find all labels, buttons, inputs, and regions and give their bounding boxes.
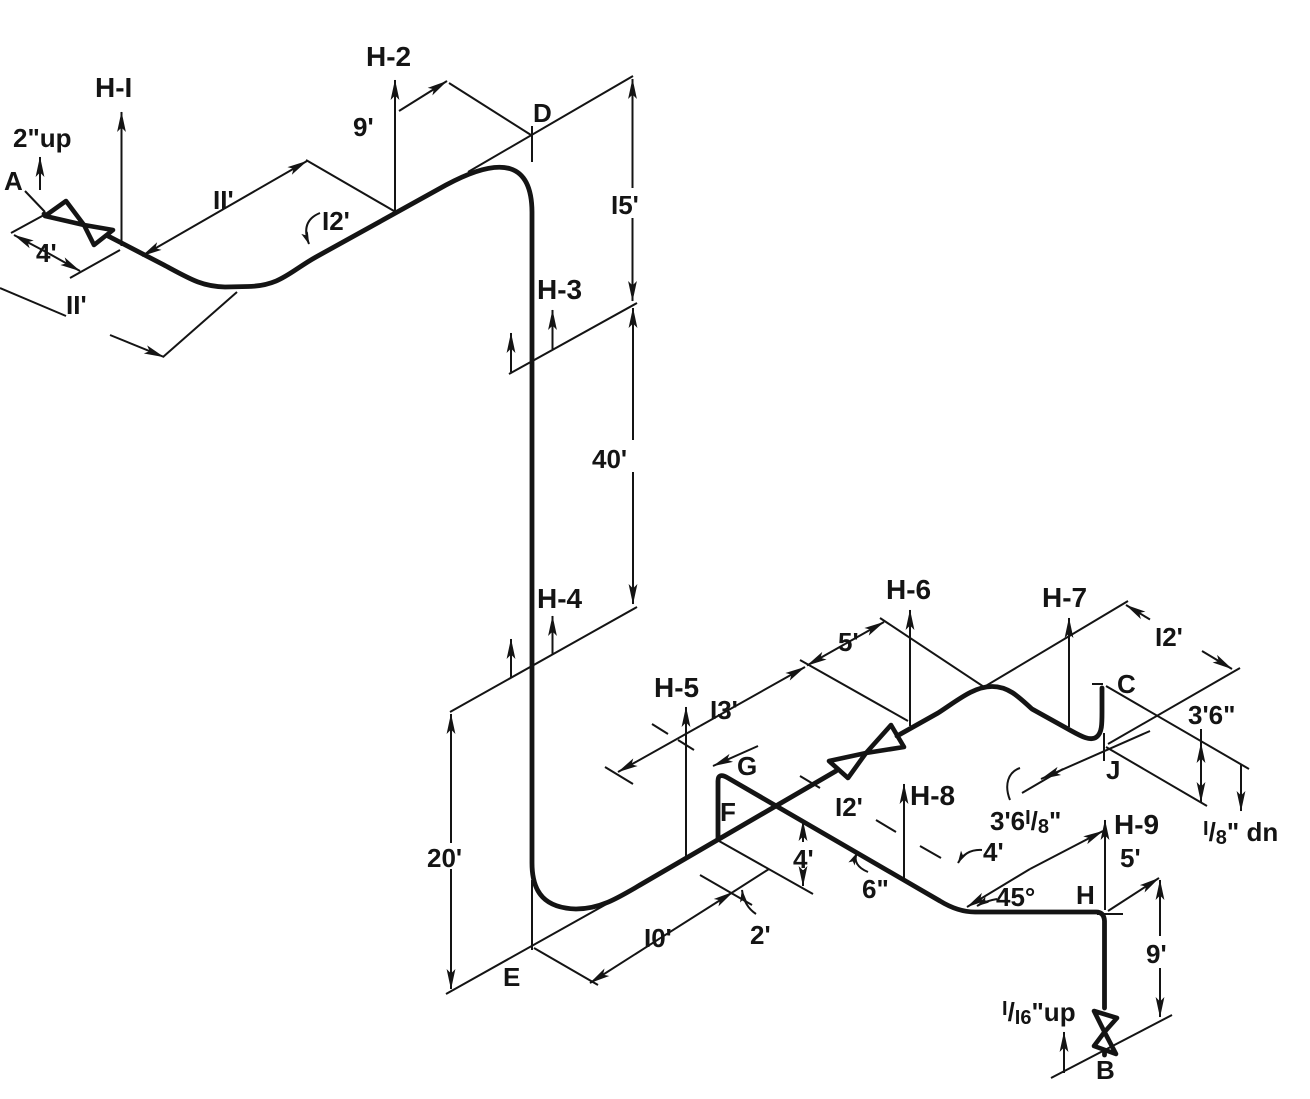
svg-text:40': 40' xyxy=(592,444,627,474)
svg-text:J: J xyxy=(1106,755,1120,785)
svg-text:F: F xyxy=(720,797,736,827)
svg-text:H: H xyxy=(1076,880,1095,910)
svg-text:B: B xyxy=(1096,1055,1115,1085)
svg-text:I2': I2' xyxy=(835,792,863,822)
svg-text:H-6: H-6 xyxy=(886,574,931,605)
svg-text:H-7: H-7 xyxy=(1042,582,1087,613)
svg-text:3'6": 3'6" xyxy=(1188,700,1235,730)
svg-text:I2': I2' xyxy=(322,206,350,236)
svg-text:9': 9' xyxy=(353,112,374,142)
svg-text:2': 2' xyxy=(750,920,771,950)
svg-text:II': II' xyxy=(213,185,234,215)
svg-text:I0': I0' xyxy=(644,923,672,953)
svg-text:H-5: H-5 xyxy=(654,672,699,703)
svg-text:I5': I5' xyxy=(611,190,639,220)
svg-text:5': 5' xyxy=(838,627,859,657)
svg-text:20': 20' xyxy=(427,843,462,873)
svg-text:II': II' xyxy=(66,290,87,320)
svg-text:D: D xyxy=(533,98,552,128)
svg-text:9': 9' xyxy=(1146,939,1167,969)
svg-text:4': 4' xyxy=(36,238,57,268)
svg-text:H-2: H-2 xyxy=(366,41,411,72)
svg-text:H-I: H-I xyxy=(95,72,132,103)
svg-text:A: A xyxy=(4,166,23,196)
svg-text:I/8" dn: I/8" dn xyxy=(1203,817,1278,849)
svg-text:G: G xyxy=(737,751,757,781)
svg-text:H-9: H-9 xyxy=(1114,809,1159,840)
svg-text:45°: 45° xyxy=(996,882,1035,912)
svg-text:4': 4' xyxy=(793,844,814,874)
svg-text:I/I6"up: I/I6"up xyxy=(1002,997,1076,1029)
svg-text:3'6I/8": 3'6I/8" xyxy=(990,806,1061,838)
svg-text:H-3: H-3 xyxy=(537,274,582,305)
svg-text:H-4: H-4 xyxy=(537,583,583,614)
svg-text:I3': I3' xyxy=(710,695,738,725)
svg-text:4': 4' xyxy=(983,837,1004,867)
svg-text:E: E xyxy=(503,962,520,992)
svg-text:I2': I2' xyxy=(1155,622,1183,652)
svg-text:5': 5' xyxy=(1120,843,1141,873)
svg-text:H-8: H-8 xyxy=(910,780,955,811)
svg-text:6": 6" xyxy=(862,874,889,904)
svg-text:C: C xyxy=(1117,669,1136,699)
svg-text:2"up: 2"up xyxy=(13,123,72,153)
